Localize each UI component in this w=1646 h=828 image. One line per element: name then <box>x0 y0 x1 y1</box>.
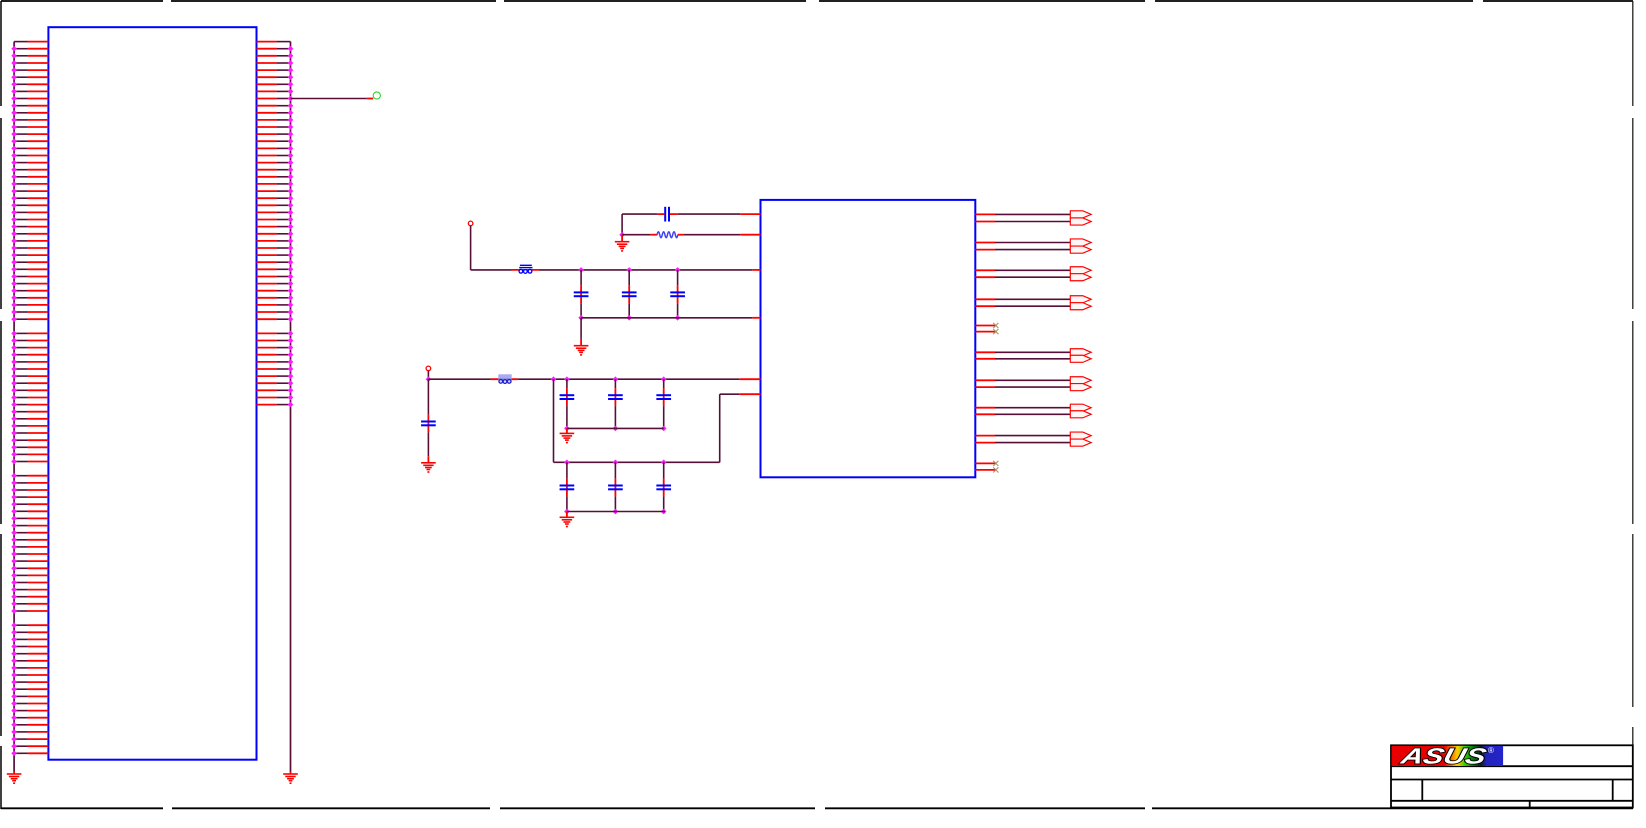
U1 right pin row 38 <box>257 309 294 315</box>
off-page arrow connector pair 5 bottom <box>1070 355 1091 362</box>
wire rail A2 <box>567 427 664 429</box>
node junction net1 top rail 3 <box>675 267 681 273</box>
node junction net1 bottom rail 1 <box>578 315 584 321</box>
wire diff pair 8 positive <box>975 435 1070 437</box>
U1 right pin row 23 <box>257 202 294 208</box>
U1 left pin row 59 <box>11 459 48 465</box>
U1 left pin row 2 <box>11 53 48 59</box>
U1 left pin row 70 <box>11 537 48 543</box>
ground below R1 junction <box>621 235 623 242</box>
wire net2 from junction to bead FB2 <box>428 378 518 380</box>
U1 right pin row 17 <box>257 160 294 166</box>
U1 left pin row 37 <box>11 302 48 308</box>
U1 left pin row 42 <box>11 338 48 344</box>
U1 left pin row 8 <box>11 96 48 102</box>
node junction rail B2 1 <box>564 509 570 515</box>
U1 right pin row 47 <box>257 373 294 379</box>
U1 right pin row 25 <box>257 217 294 223</box>
U1 right pin row 14 <box>257 138 294 144</box>
U1 right pin row 24 <box>257 210 294 216</box>
U1 left pin row 50 <box>11 395 48 401</box>
U1 right pin row 48 <box>257 380 294 386</box>
U1 right pin row 7 <box>257 89 294 95</box>
wire rail B2 to ground <box>566 512 568 518</box>
U1 left pin row 46 <box>11 366 48 372</box>
U1 right pin row 21 <box>257 188 294 194</box>
wire cap C10 upper lead <box>663 462 665 478</box>
wire cap C8 upper lead <box>566 462 568 478</box>
U1 right pin row 46 <box>257 366 294 372</box>
node junction rail B2 3 <box>661 509 667 515</box>
wire cap C9 lower lead <box>614 496 616 511</box>
wire diff pair 5 negative <box>975 358 1070 360</box>
U1 right pin row 51 <box>257 402 294 408</box>
U1 right pin row 35 <box>257 288 294 294</box>
ground symbol right bus <box>283 774 298 784</box>
U1 left pin row 87 <box>11 658 48 664</box>
U1 right pin row 8 <box>257 96 294 102</box>
U1 left pin row 99 <box>11 743 48 749</box>
wire diff pair 1 negative <box>975 221 1070 223</box>
U1 left pin row 31 <box>11 259 48 265</box>
wire series-cap net right of C1 <box>670 213 761 215</box>
svg-text:®: ® <box>1488 746 1494 755</box>
ground symbol net1 <box>574 346 589 356</box>
U1 left pin row 15 <box>11 146 48 152</box>
U1 left pin row 93 <box>11 701 48 707</box>
U1 left pin row 10 <box>11 110 48 116</box>
title block frame <box>1391 745 1633 807</box>
wire resistor net left segment <box>622 234 657 236</box>
node junction net2 at rail-B drop <box>551 376 557 382</box>
U1 left pin row 30 <box>11 252 48 258</box>
U1 left pin row 57 <box>11 444 48 450</box>
U1 left pin row 20 <box>11 181 48 187</box>
wire U1 row8 to off-page connector <box>291 98 374 100</box>
U1 left pin row 32 <box>11 266 48 272</box>
U1 left pin row 91 <box>11 686 48 692</box>
U1 left pin row 9 <box>11 103 48 109</box>
off-page arrow connector pair 7 bottom <box>1070 411 1091 418</box>
U1 left pin row 54 <box>11 423 48 429</box>
U1 right pin row 50 <box>257 395 294 401</box>
U1 left pin row 3 <box>11 60 48 66</box>
U1 right pin row 29 <box>257 245 294 251</box>
U1 left pin row 62 <box>11 480 48 486</box>
ground at right pin bus <box>290 772 292 775</box>
U1 left pin row 90 <box>11 679 48 685</box>
U1 left pin row 21 <box>11 188 48 194</box>
ground symbol left bus <box>7 774 22 784</box>
sheet border right edge <box>1632 1 1634 808</box>
sheet border bottom edge <box>1 807 1633 809</box>
node junction net1 bottom rail 3 <box>675 315 681 321</box>
wire diff pair 3 negative <box>975 276 1070 278</box>
off-page arrow connector pair 1 bottom <box>1070 218 1091 225</box>
U1 right pin row 5 <box>257 74 294 80</box>
wire cap C8 upper lead <box>427 379 429 414</box>
U1 right pin row 49 <box>257 387 294 393</box>
U1 left pin row 48 <box>11 380 48 386</box>
U1 left pin row 6 <box>11 81 48 87</box>
wire rail-B vertical drop <box>553 379 555 462</box>
U1 left pin row 97 <box>11 729 48 735</box>
wire diff pair 5 positive <box>975 351 1070 353</box>
no-connect pin stub 2 <box>975 331 995 333</box>
U1 left pin row 1 <box>11 46 48 52</box>
U1 left pin row 83 <box>11 629 48 635</box>
U1 left pin row 38 <box>11 309 48 315</box>
U1 left pin row 94 <box>11 708 48 714</box>
U1 left pin row 100 <box>11 750 48 756</box>
U1 left pin row 88 <box>11 665 48 671</box>
U1 left pin row 66 <box>11 508 48 514</box>
wire cap C5 upper lead <box>566 379 568 388</box>
U1 left pin row 73 <box>11 558 48 564</box>
wire cap C8 lower lead <box>566 496 568 511</box>
U1 left pin row 52 <box>11 409 48 415</box>
U1 left pin row 98 <box>11 736 48 742</box>
wire diff pair 4 positive <box>975 298 1070 300</box>
no-connect X 2 <box>993 329 998 334</box>
off-page arrow connector pair 8 top <box>1070 432 1091 439</box>
wire resistor net right segment <box>678 234 761 236</box>
U1 right pin row 16 <box>257 153 294 159</box>
node junction net1 top rail 2 <box>626 267 632 273</box>
U1 right pin row 44 <box>257 352 294 358</box>
ground symbol rail B2 <box>560 517 575 527</box>
power input connector circle 1 (red) <box>468 221 473 226</box>
off-page arrow connector pair 3 top <box>1070 267 1091 274</box>
capacitor C2 <box>574 285 589 303</box>
U1 left pin row 0 <box>14 41 48 43</box>
U1 left pin row 5 <box>11 74 48 80</box>
power input connector circle 2 (red) <box>426 366 431 371</box>
ferrite bead FB1 <box>519 265 532 273</box>
ground symbol rail A2 <box>560 433 575 443</box>
node junction net1 top rail 1 <box>578 267 584 273</box>
node junction rail A2 1 <box>564 426 570 432</box>
U1 left pin row 77 <box>11 587 48 593</box>
off-page arrow connector pair 7 top <box>1070 404 1091 411</box>
U1 left pin row 29 <box>11 245 48 251</box>
ground symbol at R1 junction <box>615 242 630 252</box>
no-connect X 4 <box>993 467 998 472</box>
U1 left pin row 47 <box>11 373 48 379</box>
wire cap C4 upper lead <box>677 270 679 285</box>
U1 left pin row 63 <box>11 487 48 493</box>
U1 left pin row 68 <box>11 523 48 529</box>
U1 left pin row 24 <box>11 210 48 216</box>
sheet border top edge <box>1 0 1633 2</box>
wire cap C2 upper lead <box>580 270 582 285</box>
sheet border left edge <box>0 1 2 809</box>
no-connect X 3 <box>993 461 998 466</box>
U1 right pin row 2 <box>257 53 294 59</box>
U1 left pin row 51 <box>11 402 48 408</box>
resistor R1 <box>657 232 678 238</box>
wire diff pair 2 positive <box>975 242 1070 244</box>
U1 left pin row 36 <box>11 295 48 301</box>
U1 left pin row 86 <box>11 651 48 657</box>
U1 left pin row 76 <box>11 580 48 586</box>
wire cap C10 lower lead <box>663 496 665 511</box>
U1 left pin row 45 <box>11 359 48 365</box>
wire cap C3 upper lead <box>628 270 630 285</box>
U1 left pin row 53 <box>11 416 48 422</box>
U1 left pin row 19 <box>11 174 48 180</box>
U1 left pin row 26 <box>11 224 48 230</box>
no-connect pin stub 4 <box>975 469 995 471</box>
ground symbol C8 <box>421 463 436 473</box>
wire diff pair 7 positive <box>975 407 1070 409</box>
U1 left pin row 78 <box>11 594 48 600</box>
U1 right pin row 43 <box>257 345 294 351</box>
U1 left pin row 49 <box>11 387 48 393</box>
capacitor C10 <box>656 478 671 496</box>
U1 left pin row 12 <box>11 124 48 130</box>
U1 right pin row 31 <box>257 259 294 265</box>
U1 right pin row 22 <box>257 195 294 201</box>
U1 left pin row 43 <box>11 345 48 351</box>
wire from circle 2 to junction <box>427 371 429 380</box>
U1 right pin row 37 <box>257 302 294 308</box>
node junction net2 top rail 2 <box>613 376 619 382</box>
wire cap C2 lower lead <box>580 303 582 318</box>
U1 left pin row 69 <box>11 530 48 536</box>
wire diff pair 2 negative <box>975 249 1070 251</box>
U1 left pin row 22 <box>11 195 48 201</box>
wire diff pair 7 negative <box>975 413 1070 415</box>
off-page arrow connector pair 8 bottom <box>1070 439 1091 446</box>
wire cap C4 lower lead <box>677 303 679 318</box>
U1 left pin row 64 <box>11 494 48 500</box>
wire net1 bottom rail to ground <box>580 318 582 346</box>
U1 left pin row 39 <box>11 316 48 322</box>
node junction rail B2 2 <box>613 509 619 515</box>
U1 left pin row 34 <box>11 281 48 287</box>
wire cap C6 lower lead <box>614 406 616 428</box>
off-page arrow connector pair 6 top <box>1070 377 1091 384</box>
wire bead FB2 to U2 pin 5 <box>518 378 760 380</box>
U1 right pin row 33 <box>257 274 294 280</box>
U1 right pin row 32 <box>257 266 294 272</box>
U1 left pin row 89 <box>11 672 48 678</box>
wire rail B horizontal and up to U2 pin 6 <box>554 394 761 462</box>
node junction net2 top rail 3 <box>661 376 667 382</box>
U1 left pin row 16 <box>11 153 48 159</box>
capacitor C8 <box>560 478 575 496</box>
U1 right pin row 15 <box>257 146 294 152</box>
U1 left pin row 27 <box>11 231 48 237</box>
U1 right pin bus wire <box>290 42 292 772</box>
U1 right pin row 34 <box>257 281 294 287</box>
U1 left pin row 58 <box>11 452 48 458</box>
U1 left pin row 23 <box>11 202 48 208</box>
U1 left pin row 61 <box>11 473 48 479</box>
wire rail B2 <box>567 511 665 513</box>
off-page arrow connector pair 4 top <box>1070 296 1091 303</box>
node junction rail B 3 <box>661 459 667 465</box>
no-connect pin stub 3 <box>975 462 995 464</box>
U1 right pin row 39 <box>257 316 294 322</box>
wire diff pair 6 positive <box>975 379 1070 381</box>
U1 left pin row 75 <box>11 573 48 579</box>
U1 right pin row 10 <box>257 110 294 116</box>
wire series-cap net left of C1 <box>622 214 664 235</box>
U1 left pin row 96 <box>11 722 48 728</box>
U1 left pin row 35 <box>11 288 48 294</box>
U1 left pin row 95 <box>11 715 48 721</box>
U1 right pin row 20 <box>257 181 294 187</box>
U1 left pin row 18 <box>11 167 48 173</box>
capacitor C5 <box>560 388 575 406</box>
IC U1 body <box>48 27 256 760</box>
U1 right pin row 3 <box>257 60 294 66</box>
U1 left pin row 28 <box>11 238 48 244</box>
U1 right pin row 13 <box>257 131 294 137</box>
U1 left pin row 4 <box>11 67 48 73</box>
U1 left pin row 17 <box>11 160 48 166</box>
U1 left pin row 79 <box>11 601 48 607</box>
U1 left pin row 85 <box>11 644 48 650</box>
off-page arrow connector pair 3 bottom <box>1070 274 1091 281</box>
node junction at circle 2 <box>426 376 432 382</box>
U1 right pin row 12 <box>257 124 294 130</box>
wire cap C6 upper lead <box>614 379 616 388</box>
ground at left pin bus <box>13 772 15 775</box>
capacitor C4 <box>670 285 685 303</box>
node junction rail A2 2 <box>613 426 619 432</box>
U1 left pin row 25 <box>11 217 48 223</box>
wire cap C5 lower lead <box>566 406 568 428</box>
wire diff pair 8 negative <box>975 442 1070 444</box>
U1 right pin row 42 <box>257 338 294 344</box>
off-page arrow connector pair 6 bottom <box>1070 384 1091 391</box>
wire cap C8 lower lead to ground <box>427 432 429 462</box>
U1 left pin row 71 <box>11 544 48 550</box>
wire from circle 1 down and right to bead FB1 <box>471 226 539 270</box>
node junction net1 bottom rail 2 <box>626 315 632 321</box>
U1 right pin row 36 <box>257 295 294 301</box>
node junction rail A2 3 <box>661 426 667 432</box>
U1 right pin row 6 <box>257 81 294 87</box>
capacitor C1 (series) <box>665 207 669 222</box>
capacitor C8 <box>421 414 436 432</box>
wire cap C9 upper lead <box>614 462 616 478</box>
svg-text:ASUS: ASUS <box>1397 744 1489 769</box>
wire net1 bottom rail to U2 pin 4 <box>581 317 760 319</box>
U1 right pin row 0 <box>257 41 291 43</box>
off-page arrow connector pair 2 top <box>1070 239 1091 246</box>
off-page arrow connector pair 1 top <box>1070 211 1091 218</box>
U1 left pin row 7 <box>11 89 48 95</box>
U1 left pin row 80 <box>11 608 48 614</box>
U1 left pin row 56 <box>11 437 48 443</box>
U1 right pin row 45 <box>257 359 294 365</box>
U1 right pin row 1 <box>257 46 294 52</box>
U1 right pin row 9 <box>257 103 294 109</box>
U1 left pin row 67 <box>11 516 48 522</box>
capacitor C7 <box>656 388 671 406</box>
wire diff pair 6 negative <box>975 386 1070 388</box>
ferrite bead FB2 <box>498 374 511 383</box>
wire bead FB1 to U2 pin 3 <box>539 269 761 271</box>
U1 right pin row 28 <box>257 238 294 244</box>
U1 left pin row 44 <box>11 352 48 358</box>
node junction net2 top rail 1 <box>564 376 570 382</box>
capacitor C3 <box>622 285 637 303</box>
wire cap C3 lower lead <box>628 303 630 318</box>
U1 left pin row 11 <box>11 117 48 123</box>
U1 left pin row 92 <box>11 694 48 700</box>
wire diff pair 4 negative <box>975 305 1070 307</box>
wire rail A2 to ground <box>566 428 568 433</box>
U1 left pin row 13 <box>11 131 48 137</box>
wire cap C7 lower lead <box>663 406 665 428</box>
off-page arrow connector pair 4 bottom <box>1070 303 1091 310</box>
U1 left pin row 72 <box>11 551 48 557</box>
U1 left pin row 65 <box>11 501 48 507</box>
U1 left pin row 82 <box>11 622 48 628</box>
U1 right pin row 18 <box>257 167 294 173</box>
no-connect X 1 <box>993 323 998 328</box>
capacitor C6 <box>608 388 623 406</box>
wire diff pair 1 positive <box>975 213 1070 215</box>
U1 left pin row 84 <box>11 637 48 643</box>
U1 left pin row 74 <box>11 565 48 571</box>
IC U2 body <box>761 200 976 477</box>
U1 right pin row 4 <box>257 67 294 73</box>
U1 right pin row 11 <box>257 117 294 123</box>
U1 left pin row 33 <box>11 274 48 280</box>
off-page connector circle (green) <box>373 92 380 99</box>
node junction at R1 left <box>619 232 625 238</box>
U1 left pin row 55 <box>11 430 48 436</box>
capacitor C9 <box>608 478 623 496</box>
no-connect pin stub 1 <box>975 325 995 327</box>
U1 right pin row 41 <box>257 331 294 337</box>
node junction rail B 2 <box>613 459 619 465</box>
U1 right pin row 30 <box>257 252 294 258</box>
node junction rail B 1 <box>564 459 570 465</box>
U1 left pin row 14 <box>11 138 48 144</box>
wire diff pair 3 positive <box>975 269 1070 271</box>
U1 left pin row 41 <box>11 331 48 337</box>
U1 left pin bus wire <box>13 42 15 772</box>
off-page arrow connector pair 5 top <box>1070 349 1091 356</box>
U1 right pin row 26 <box>257 224 294 230</box>
U1 right pin row 19 <box>257 174 294 180</box>
wire cap C7 upper lead <box>663 379 665 388</box>
off-page arrow connector pair 2 bottom <box>1070 246 1091 253</box>
U1 right pin row 27 <box>257 231 294 237</box>
